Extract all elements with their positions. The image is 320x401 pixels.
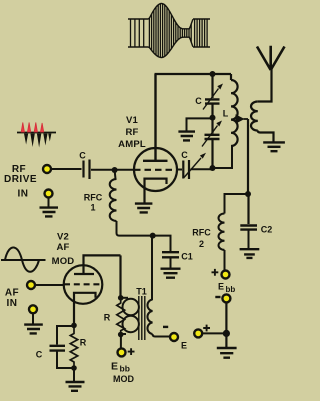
svg-text:R: R bbox=[104, 313, 111, 323]
wire antenna lead-in bbox=[258, 68, 272, 102]
wire tank bottom to L bbox=[213, 147, 233, 169]
AF input sine waveform bbox=[1, 247, 46, 271]
RF drive pulse waveform (red spikes) bbox=[17, 123, 56, 148]
node tank mid (ground tap) bbox=[210, 115, 216, 121]
svg-text:1: 1 bbox=[90, 203, 95, 213]
svg-text:C: C bbox=[195, 96, 202, 106]
ground (antenna) bbox=[263, 142, 285, 151]
svg-text:IN: IN bbox=[7, 298, 18, 309]
node grid junction (RFC1 top) bbox=[112, 167, 118, 173]
terminal −Ebb bbox=[222, 294, 230, 302]
svg-text:V1: V1 bbox=[126, 115, 139, 126]
terminal +Ebb bbox=[222, 271, 230, 279]
capacitor C (cathode bypass) bbox=[50, 346, 66, 351]
wire junction to RFC2 bbox=[225, 194, 249, 214]
svg-text:AMPL: AMPL bbox=[118, 139, 146, 150]
wire V1 output to coupling capacitor bbox=[178, 169, 182, 171]
arrow through coupling capacitor bbox=[184, 158, 201, 178]
label − (Ebb) bbox=[215, 296, 220, 298]
ground (RF input) bbox=[40, 198, 59, 217]
V1 grid (dashed) bbox=[134, 169, 177, 171]
label + (Ebb) bbox=[212, 269, 219, 276]
wire between tank capacitors bbox=[211, 104, 213, 134]
svg-text:RFC: RFC bbox=[192, 228, 211, 238]
antenna bbox=[257, 46, 285, 70]
svg-text:E: E bbox=[111, 361, 118, 373]
wire cathode junction to bypass capacitor bbox=[57, 326, 74, 345]
ground (V1 cathode) bbox=[135, 204, 153, 213]
wire RF input to capacitor C bbox=[51, 168, 82, 170]
capacitor C (tank, variable, lower) bbox=[205, 135, 220, 139]
wire AF input to V2 grid bbox=[35, 284, 64, 286]
terminal + (bias return) bbox=[194, 329, 202, 337]
ground (V2 cathode) bbox=[66, 382, 85, 391]
node T1 primary top bbox=[118, 295, 124, 301]
transformer T1 core bbox=[139, 296, 145, 340]
vacuum tube V2 envelope bbox=[64, 265, 103, 304]
V1 plate bbox=[143, 74, 168, 161]
svg-text:E: E bbox=[181, 341, 187, 351]
wire capacitor C to V1 grid bbox=[91, 169, 133, 171]
svg-text:C1: C1 bbox=[181, 252, 193, 262]
node RFC2 / C2 junction bbox=[245, 191, 251, 197]
svg-text:V2: V2 bbox=[57, 232, 69, 243]
wire T1 primary bottom to Ebb MOD terminal bbox=[120, 335, 122, 349]
wire lower tank capacitor to bottom junction bbox=[211, 139, 213, 168]
capacitor C (tank, variable, upper) bbox=[205, 99, 220, 103]
svg-text:bb: bb bbox=[120, 364, 130, 374]
V2 grid (dashed) bbox=[64, 283, 102, 285]
node ground junction right bbox=[223, 330, 230, 337]
wire tap to ground bbox=[187, 118, 212, 130]
svg-text:bb: bb bbox=[226, 285, 236, 294]
ground (AF input) bbox=[24, 313, 43, 333]
svg-text:AF: AF bbox=[56, 242, 69, 253]
ground (tank tap) bbox=[178, 132, 195, 141]
terminal AF in hot bbox=[27, 281, 35, 289]
svg-text:C2: C2 bbox=[261, 225, 273, 235]
wire V1 plate top to tank (top rail) bbox=[155, 73, 232, 75]
terminal RF drive ground bbox=[45, 190, 53, 198]
inductor antenna coupling coil bbox=[251, 102, 258, 131]
svg-text:IN: IN bbox=[18, 189, 29, 200]
ground (Ebb / bias) bbox=[217, 348, 237, 358]
label + (Ebb MOD) bbox=[128, 348, 135, 355]
wire to ground (right) bbox=[225, 333, 227, 347]
wire coupling coil to ground bbox=[258, 131, 274, 142]
svg-text:RFC: RFC bbox=[84, 193, 103, 203]
inductor RFC1 bbox=[110, 170, 153, 236]
svg-text:RF: RF bbox=[125, 127, 138, 138]
terminal E bbox=[170, 333, 178, 341]
modulated RF output waveform (top center) bbox=[128, 4, 210, 58]
arrow through lower tank capacitor bbox=[202, 126, 218, 147]
label − (E) bbox=[163, 326, 168, 328]
capacitor C2 bbox=[240, 226, 257, 230]
svg-text:MOD: MOD bbox=[113, 374, 134, 384]
svg-text:L: L bbox=[223, 109, 229, 119]
ground (C2) bbox=[240, 249, 260, 258]
node V2 cathode junction bbox=[71, 323, 77, 329]
svg-text:C: C bbox=[181, 150, 188, 160]
svg-text:MOD: MOD bbox=[52, 256, 75, 267]
inductor RFC2 bbox=[219, 214, 225, 250]
wire junction to C2 bbox=[247, 194, 249, 224]
label + (bias return) bbox=[203, 325, 210, 332]
wire −Ebb to ground junction bbox=[225, 302, 227, 333]
wire junction to C1 bbox=[153, 236, 171, 251]
resistor R (across T1 primary) bbox=[117, 298, 125, 335]
wire bias terminal to ground junction bbox=[202, 332, 226, 334]
tap arrow on L bbox=[236, 114, 245, 123]
V1 cathode bbox=[145, 179, 167, 203]
terminal RF drive hot bbox=[43, 165, 51, 173]
wire T1 secondary bottom to terminal E bbox=[153, 334, 171, 337]
node tank top bbox=[210, 71, 216, 77]
terminal Ebb MOD bbox=[118, 348, 126, 356]
wire to ground (V2 cathode) bbox=[73, 368, 75, 381]
node T1 primary bottom bbox=[118, 332, 124, 338]
svg-text:T1: T1 bbox=[136, 287, 147, 297]
wire C1 to ground bbox=[170, 258, 172, 269]
svg-text:DRIVE: DRIVE bbox=[4, 174, 37, 185]
wire coupling capacitor to tank bottom junction bbox=[191, 168, 213, 170]
transformer T1 secondary winding bbox=[147, 300, 152, 335]
V2 cathode bbox=[74, 293, 96, 325]
svg-text:2: 2 bbox=[199, 239, 204, 249]
wire RFC2 to +Ebb terminal bbox=[224, 250, 226, 271]
node tank bottom bbox=[210, 165, 216, 171]
capacitor C1 bbox=[162, 252, 179, 257]
node RFC1 / C1 / T1 secondary junction bbox=[150, 233, 156, 239]
svg-text:C: C bbox=[79, 151, 86, 161]
wire T1 secondary top to grid-return junction bbox=[151, 237, 153, 300]
wire bypass capacitor to bottom junction bbox=[57, 351, 74, 368]
svg-text:E: E bbox=[218, 282, 224, 292]
V2 plate bbox=[74, 255, 121, 274]
wire tank capacitor branch upper bbox=[211, 74, 213, 98]
svg-text:AF: AF bbox=[5, 288, 19, 299]
vacuum tube V1 envelope bbox=[134, 148, 177, 191]
ground (C1) bbox=[161, 269, 181, 278]
resistor R (cathode bias) bbox=[70, 325, 77, 368]
node cathode RC bottom bbox=[71, 365, 77, 371]
arrow through upper tank capacitor bbox=[203, 89, 219, 110]
inductor L (tank coil) bbox=[231, 74, 238, 146]
svg-text:R: R bbox=[80, 338, 87, 348]
wire L tap down to RFC2/C2 junction bbox=[247, 119, 249, 194]
svg-text:C: C bbox=[36, 350, 43, 360]
capacitor C (RF input coupling) bbox=[84, 160, 90, 180]
wire V2 plate down to T1 primary bbox=[119, 255, 121, 298]
wire C2 to ground bbox=[248, 230, 250, 248]
transformer T1 primary winding bbox=[121, 298, 139, 334]
capacitor C (output coupling, variable) bbox=[183, 160, 189, 179]
terminal AF in ground bbox=[29, 305, 37, 313]
